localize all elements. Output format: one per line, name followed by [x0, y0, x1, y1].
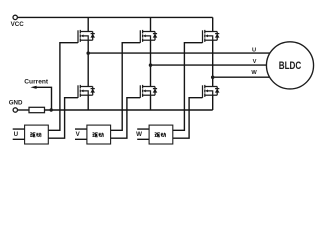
driver block V: [87, 125, 111, 144]
transistor Q5 (V phase low-side MOSFET): [140, 85, 157, 98]
wire: U driver input stubs: [13, 129, 25, 139]
transistor Q6 (W phase low-side MOSFET): [203, 85, 220, 98]
transistor Q1 (U phase high-side MOSFET): [78, 30, 95, 43]
wire: U high-side drain drop: [87, 17, 89, 31]
svg-text:U: U: [252, 47, 256, 53]
svg-text:U: U: [14, 131, 19, 138]
driver block W: [149, 125, 173, 144]
wire: W high gate routing: [173, 43, 203, 131]
wire: V high-side drain drop: [150, 17, 152, 31]
wire: phase W line to motor: [213, 76, 280, 78]
wire: current sense arrow path: [36, 87, 51, 110]
svg-text:GND: GND: [9, 99, 23, 106]
wire: V low source to bottom rail: [150, 95, 152, 110]
wire: U high gate routing: [48, 43, 78, 131]
node W (junction dot): [211, 75, 215, 79]
wire: V high gate routing: [111, 43, 141, 131]
wire: V phase vertical: [150, 40, 152, 86]
transistor Q4 (U phase low-side MOSFET): [78, 85, 95, 98]
svg-text:BLDC: BLDC: [279, 60, 302, 73]
wire: V driver input stubs: [75, 129, 87, 139]
wire: W low source to bottom rail: [212, 95, 214, 110]
driver block U: [25, 125, 49, 144]
transistor Q3 (W phase high-side MOSFET): [203, 30, 220, 43]
node shunt junction dot: [50, 108, 53, 111]
current direction arrowhead: [30, 86, 36, 89]
wire: W high-side drain drop (rail corner): [212, 17, 214, 31]
svg-text:W: W: [136, 131, 142, 138]
wire: phase V line to motor: [151, 64, 281, 66]
node U (junction dot): [86, 51, 90, 55]
svg-text:V: V: [76, 131, 81, 138]
node V (junction dot): [149, 63, 153, 67]
wire: W low gate routing: [173, 98, 203, 139]
GND terminal: [13, 108, 17, 112]
wire: VCC top rail: [17, 16, 212, 18]
wire: V low gate routing: [111, 98, 141, 139]
transistor Q2 (V phase high-side MOSFET): [140, 30, 157, 43]
wire: U low source to bottom rail: [87, 95, 89, 110]
svg-text:V: V: [253, 59, 257, 65]
wire: U phase vertical (high source to low drain): [87, 40, 89, 86]
svg-text:W: W: [251, 70, 257, 76]
resistor R (current shunt): [29, 107, 45, 112]
wire: W driver input stubs: [137, 129, 149, 139]
wire: W phase vertical: [212, 40, 214, 86]
wire: GND to shunt resistor: [18, 109, 30, 111]
wire: U low gate routing: [48, 98, 78, 139]
svg-text:Current: Current: [24, 79, 49, 86]
wire: bottom rail: [45, 109, 213, 111]
VCC terminal: [13, 15, 17, 19]
svg-text:VCC: VCC: [11, 21, 25, 28]
BLDC motor: [266, 42, 313, 89]
wire: phase U line to motor: [88, 52, 280, 54]
